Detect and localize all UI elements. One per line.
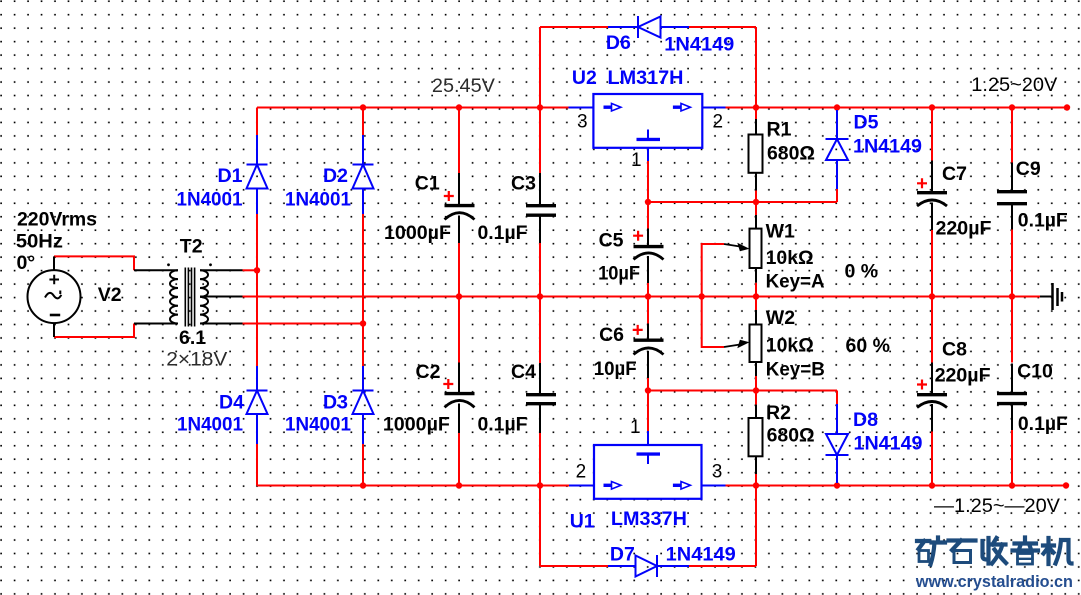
capacitor C9: [997, 163, 1027, 230]
svg-text:25.45V: 25.45V: [432, 76, 495, 97]
svg-text:D7: D7: [610, 544, 635, 566]
junction bottom rail at C10: [1009, 482, 1015, 488]
wire C5 column: [647, 202, 649, 297]
svg-text:1N4149: 1N4149: [664, 34, 734, 56]
svg-text:C10: C10: [1017, 361, 1053, 383]
transformer T2: [134, 263, 243, 326]
junction adj rail upper left: [645, 199, 651, 205]
wire C8 column: [931, 297, 933, 486]
svg-text:2: 2: [713, 112, 724, 133]
svg-text:C8: C8: [942, 338, 967, 360]
svg-text:C6: C6: [599, 324, 624, 346]
junction center rail wipers: [699, 293, 705, 299]
wire D8 corners: [836, 391, 838, 486]
svg-text:D5: D5: [854, 111, 879, 133]
resistor R1: [749, 119, 763, 191]
junction top rail at D2: [360, 104, 366, 110]
wire C9 column: [1011, 108, 1013, 297]
svg-text:W1: W1: [766, 220, 795, 242]
diode D6: [608, 16, 689, 38]
wire W2 wiper L: [702, 297, 724, 348]
svg-text:D3: D3: [323, 392, 348, 414]
svg-text:U2: U2: [572, 67, 597, 89]
svg-text:D2: D2: [323, 165, 348, 187]
svg-text:1N4149: 1N4149: [666, 544, 736, 566]
capacitor C7: [917, 161, 947, 231]
wire top rail left: [257, 107, 569, 109]
svg-text:1N4149: 1N4149: [854, 433, 923, 455]
junction center rail C9: [1009, 293, 1015, 299]
wire D6 loop top right segment: [689, 26, 756, 28]
junction center rail C5: [645, 293, 651, 299]
diode D5: [826, 110, 849, 189]
wire W1 wiper L: [702, 244, 724, 297]
svg-text:3: 3: [577, 112, 588, 133]
svg-text:0°: 0°: [17, 252, 36, 274]
capacitor C8: [917, 363, 947, 432]
junction bottom rail at D3: [360, 482, 366, 488]
capacitor C6: [633, 324, 664, 379]
diode D3: [353, 366, 374, 444]
wire D2 column: [362, 108, 364, 486]
junction adj rail lower right: [753, 387, 759, 393]
svg-text:220Vrms: 220Vrms: [17, 209, 97, 231]
wire D7 loop bottom left segment: [540, 565, 608, 567]
wire C4 column: [539, 297, 541, 486]
svg-text:0 %: 0 %: [845, 261, 879, 283]
junction transformer top tap: [254, 267, 260, 273]
svg-text:V2: V2: [98, 284, 122, 306]
ground: [1040, 283, 1062, 310]
diode D4: [247, 366, 268, 444]
wire D6 loop right vertical: [755, 27, 757, 108]
svg-text:1N4001: 1N4001: [177, 189, 243, 211]
svg-text:1N4001: 1N4001: [285, 189, 351, 211]
junction center rail W1/W2: [753, 293, 759, 299]
svg-text:1N4149: 1N4149: [853, 135, 922, 157]
svg-text:220µF: 220µF: [936, 218, 992, 240]
potentiometer W2: [724, 310, 762, 376]
svg-text:U1: U1: [570, 511, 595, 533]
junction bottom rail at C4/D7: [537, 482, 543, 488]
regulator U1 LM337H: [569, 431, 726, 499]
svg-text:C2: C2: [416, 361, 441, 383]
junction top rail at C3/D6: [537, 104, 543, 110]
wire left vertical D1 column: [256, 108, 258, 486]
wire adj rail upper y202: [648, 201, 837, 203]
wire C10 column: [1011, 297, 1013, 486]
wire C1 column: [458, 108, 460, 297]
AC source V2: [28, 256, 81, 337]
wire R2 column: [755, 391, 757, 486]
wire R1 column: [755, 108, 757, 203]
svg-text:LM317H: LM317H: [608, 67, 684, 89]
wire center ground rail: [243, 296, 1041, 298]
wire C7 column: [931, 108, 933, 297]
svg-text:10kΩ: 10kΩ: [766, 247, 814, 269]
capacitor C4: [526, 363, 556, 433]
svg-text:1000µF: 1000µF: [384, 222, 451, 244]
svg-text:T2: T2: [180, 236, 203, 258]
wire transformer top tap: [243, 269, 258, 271]
svg-text:10µF: 10µF: [594, 358, 637, 380]
wire C6 column: [647, 297, 649, 391]
svg-text:0.1µF: 0.1µF: [478, 414, 528, 436]
diode D8: [826, 404, 849, 483]
svg-text:Key=A: Key=A: [766, 271, 825, 293]
diode D1: [247, 135, 268, 214]
wire W2 column: [755, 297, 757, 391]
wire D7 loop bottom right segment: [689, 565, 756, 567]
svg-text:D1: D1: [218, 165, 243, 187]
junction top rail at D5: [834, 104, 840, 110]
svg-text:R1: R1: [767, 118, 792, 140]
svg-text:1000µF: 1000µF: [383, 414, 450, 436]
svg-text:1.25~20V: 1.25~20V: [971, 75, 1057, 96]
svg-text:C7: C7: [942, 163, 967, 185]
wire C3 column: [539, 108, 541, 297]
svg-text:1: 1: [630, 417, 641, 438]
wire D7 loop right vertical: [755, 486, 757, 567]
wire adj rail lower y390: [648, 390, 837, 392]
svg-text:1: 1: [631, 150, 642, 171]
junction adj rail lower left: [645, 387, 651, 393]
capacitor C1: [444, 173, 475, 243]
svg-text:680Ω: 680Ω: [767, 143, 815, 165]
junction transformer bottom tap: [360, 320, 366, 326]
svg-text:0.1µF: 0.1µF: [1018, 413, 1068, 435]
junction bottom rail end: [1063, 482, 1069, 488]
svg-text:60 %: 60 %: [846, 335, 890, 357]
wire top rail right: [726, 107, 1068, 109]
junction center rail C7: [929, 293, 935, 299]
capacitor C10: [997, 364, 1027, 431]
junction bottom rail at C2: [456, 482, 462, 488]
svg-text:C5: C5: [599, 229, 624, 251]
capacitor C2: [443, 363, 474, 434]
svg-text:R2: R2: [766, 402, 791, 424]
svg-text:2×18V: 2×18V: [166, 350, 227, 371]
svg-text:10µF: 10µF: [598, 263, 640, 285]
svg-text:C4: C4: [511, 361, 536, 383]
wire U1 pin1: [647, 391, 649, 432]
junction top rail end: [1064, 104, 1070, 110]
junction bottom rail at C8: [929, 482, 935, 488]
wire D6 loop left vertical: [539, 27, 541, 108]
wire U2 pin1 to adj rail: [647, 161, 649, 202]
svg-text:www.crystalradio.cn: www.crystalradio.cn: [915, 573, 1073, 591]
wire D5 bottom corner: [836, 189, 838, 202]
junction top rail at R1/D6: [753, 104, 759, 110]
svg-text:—1.25~—20V: —1.25~—20V: [934, 496, 1060, 517]
svg-text:220µF: 220µF: [935, 365, 991, 387]
svg-text:1N4001: 1N4001: [177, 414, 243, 436]
svg-text:Key=B: Key=B: [766, 359, 825, 381]
junction bottom rail at R2/D7: [753, 482, 759, 488]
svg-text:6.1: 6.1: [179, 327, 206, 349]
wire bottom rail right: [726, 485, 1067, 487]
svg-text:10kΩ: 10kΩ: [766, 335, 814, 357]
svg-text:680Ω: 680Ω: [767, 425, 815, 447]
svg-text:0.1µF: 0.1µF: [478, 222, 528, 244]
svg-text:3: 3: [712, 461, 723, 482]
svg-text:D4: D4: [219, 392, 244, 414]
svg-text:C9: C9: [1016, 158, 1041, 180]
junction top rail at C1: [456, 104, 462, 110]
potentiometer W1: [724, 215, 762, 283]
svg-text:LM337H: LM337H: [611, 508, 687, 530]
svg-text:C3: C3: [511, 173, 536, 195]
diode D7: [608, 555, 689, 577]
diode D2: [353, 135, 374, 214]
junction center rail C3: [537, 293, 543, 299]
resistor R2: [749, 405, 763, 474]
svg-text:W2: W2: [766, 307, 795, 329]
svg-text:50Hz: 50Hz: [16, 230, 63, 252]
wire bottom rail left: [257, 485, 569, 487]
wire C2 column: [458, 297, 460, 486]
wire W1 column: [755, 202, 757, 297]
watermark CJK logo: [917, 538, 1072, 565]
junction bottom rail at D8: [834, 482, 840, 488]
wire V2 top to transformer: [54, 256, 134, 270]
wire transformer bottom tap to D3 column: [243, 323, 364, 325]
svg-text:D8: D8: [853, 409, 878, 431]
wire D7 loop left vertical: [539, 486, 541, 567]
svg-text:1N4001: 1N4001: [285, 414, 351, 436]
capacitor C5: [633, 229, 663, 284]
capacitor C3: [526, 173, 556, 243]
svg-text:D6: D6: [606, 32, 631, 54]
junction adj rail upper right: [753, 199, 759, 205]
junction center rail C1: [456, 293, 462, 299]
wire V2 bottom to transformer: [54, 324, 134, 338]
regulator U2 LM317H: [569, 94, 726, 161]
junction top rail at C9: [1009, 104, 1015, 110]
svg-text:C1: C1: [415, 173, 440, 195]
wire D6 loop top left segment: [540, 26, 608, 28]
label V2 source parameters: [16, 209, 97, 274]
svg-text:0.1µF: 0.1µF: [1018, 210, 1068, 232]
junction top rail at C7: [929, 104, 935, 110]
svg-text:2: 2: [576, 461, 587, 482]
